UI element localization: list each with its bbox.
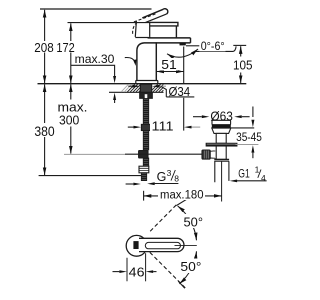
svg-text:300: 300 xyxy=(59,113,79,128)
Ø34 leader bend xyxy=(161,86,167,97)
faucet F1: handle neck right edge xyxy=(149,22,151,37)
drain flange xyxy=(212,128,231,133)
svg-text:105: 105 xyxy=(233,58,253,73)
dim 46 left arrow xyxy=(113,271,120,273)
swivel arc 0-6 xyxy=(167,49,198,57)
faucet F1: body rear upper edge xyxy=(175,26,177,38)
svg-text:46: 46 xyxy=(129,265,145,280)
faucet F1: lever top edge xyxy=(142,9,163,18)
dim Ø34 left arrow xyxy=(128,85,132,87)
drain body lower xyxy=(216,146,226,159)
hose hex fitting G3/8 xyxy=(139,166,149,173)
dim Ø63 right arrow xyxy=(234,115,242,118)
faucet F1: base plate xyxy=(136,81,158,84)
drain washer flange xyxy=(206,143,237,146)
dim 105 vertical top xyxy=(240,46,242,57)
svg-text:50°: 50° xyxy=(184,215,204,230)
0-6 underline xyxy=(195,46,237,51)
pop-up horizontal rod xyxy=(125,153,204,155)
faucet F1: body top line xyxy=(135,37,150,39)
dim 172 extension xyxy=(68,22,150,24)
drain plug black band xyxy=(212,125,231,128)
dim max180 line xyxy=(144,195,222,197)
svg-text:G1: G1 xyxy=(238,167,250,181)
svg-text:3: 3 xyxy=(167,168,172,178)
dim 35-45 bottom arrow xyxy=(251,145,254,152)
plan view: slot axis line xyxy=(175,245,197,247)
0-6 leader line xyxy=(186,45,200,47)
faucet rod collar xyxy=(141,124,150,130)
svg-text:35-45: 35-45 xyxy=(236,132,262,144)
faucet threaded rod upper xyxy=(143,99,148,125)
dim Ø63 left arrow xyxy=(193,116,202,118)
dim 46 right arrow xyxy=(146,270,154,273)
svg-text:G: G xyxy=(157,170,167,184)
faucet F1: column rear edge xyxy=(155,42,157,80)
drain side knob xyxy=(202,150,210,159)
drain bottom cap xyxy=(214,159,229,161)
plan view: upper dashed overshoot xyxy=(177,197,190,205)
plan view: dashed 50 up xyxy=(150,204,177,232)
Ø34 underline xyxy=(166,96,194,98)
dim 111 right arrow xyxy=(184,126,192,129)
dim max300 vertical xyxy=(70,84,72,153)
dim 35-45 gray extension xyxy=(235,144,258,146)
plan view: upper 50 arc xyxy=(178,206,197,240)
plan view: lever xyxy=(139,238,184,251)
G1 1/4 leader underline xyxy=(237,180,267,182)
drain tailpipe xyxy=(215,161,229,182)
svg-text:51: 51 xyxy=(161,57,177,72)
plan view: lever slot xyxy=(145,242,180,248)
dim Ø34 right arrow xyxy=(152,85,160,88)
plan view: lower 50 arc xyxy=(179,251,196,283)
counter top line xyxy=(38,83,247,85)
faucet F1: spout blade top xyxy=(148,37,191,39)
dim max30 lower arrow xyxy=(114,100,116,103)
text labels with white backing xyxy=(33,40,266,280)
dim 51 extension xyxy=(183,47,185,84)
plan view: dashed 50 down xyxy=(150,252,186,288)
faucet F1: lever tip arc xyxy=(163,9,168,14)
faucet F1: spout underside + front edge xyxy=(137,38,191,81)
faucet F1: neck dashed arc alt position xyxy=(133,22,138,35)
svg-text:0°-6°: 0°-6° xyxy=(201,41,225,53)
faucet mounting bracket xyxy=(140,93,153,99)
dim max30 leader underline xyxy=(71,65,115,76)
faucet threaded rod lower xyxy=(143,158,148,166)
dim 380 bottom extension xyxy=(39,175,141,177)
svg-text:208: 208 xyxy=(34,40,53,55)
drain body upper xyxy=(216,133,226,143)
faucet F1: lever dashed alt position xyxy=(134,13,157,22)
dim 111 right extension xyxy=(183,98,185,131)
svg-text:8: 8 xyxy=(174,173,179,183)
dim 172 vertical xyxy=(70,23,72,83)
counter hatch left xyxy=(127,84,140,92)
drain vertical rod xyxy=(221,162,223,202)
svg-text:172: 172 xyxy=(56,40,74,55)
svg-text:max.30: max.30 xyxy=(75,52,115,66)
svg-text:Ø34: Ø34 xyxy=(169,84,191,99)
plan view: lower dashed overshoot xyxy=(178,281,185,288)
pop-up horizontal rod gray xyxy=(64,153,125,155)
faucet F1: lever bottom edge xyxy=(145,14,166,23)
dim 105 top tick xyxy=(233,44,246,46)
max30 hook arrow xyxy=(125,58,135,63)
dim 35-45 top arrow xyxy=(252,107,254,118)
plan view: body circle xyxy=(126,235,147,256)
hose stub xyxy=(141,173,146,181)
dim 46 left extension xyxy=(126,258,128,282)
svg-text:1: 1 xyxy=(255,165,260,175)
faucet shank through counter xyxy=(140,84,151,92)
plan view: pivot block xyxy=(133,241,138,249)
dim 46 right extension xyxy=(145,253,147,281)
svg-text:Ø63: Ø63 xyxy=(210,109,233,124)
svg-text:50°: 50° xyxy=(180,259,201,274)
pop-up rod tee nut xyxy=(139,151,148,158)
dim 380 vertical xyxy=(44,84,46,175)
svg-text:380: 380 xyxy=(34,124,54,139)
svg-text:max.180: max.180 xyxy=(160,189,204,201)
dim max180 left tick xyxy=(143,191,145,201)
counter hatch gray xyxy=(121,84,132,92)
G3/8 leader underline arrow xyxy=(155,183,179,185)
svg-text:111: 111 xyxy=(152,119,174,134)
faucet threaded rod mid xyxy=(143,131,148,150)
G3/8 left arrow xyxy=(126,183,134,185)
drain plug lid xyxy=(212,120,231,124)
faucet F1: top plate xyxy=(150,22,178,26)
faucet F1: handle neck left edge xyxy=(135,21,136,37)
dim 111 left arrow xyxy=(128,126,134,128)
dim 208 vertical xyxy=(44,10,46,83)
svg-text:4: 4 xyxy=(261,173,266,183)
wire: top reference line y=9 xyxy=(40,8,152,10)
dim 51 line xyxy=(156,71,183,73)
counter hatch right xyxy=(152,84,164,92)
counter bottom line xyxy=(109,91,164,93)
faucet F1: aerator xyxy=(180,43,186,46)
dim 105 vertical bottom xyxy=(240,73,242,84)
